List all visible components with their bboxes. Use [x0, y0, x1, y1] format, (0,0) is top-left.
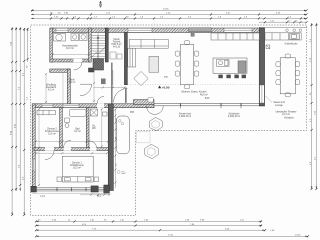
ticks: top detail chain: [31, 9, 308, 19]
door arc: entry door: [80, 84, 92, 96]
door arc: utility to vestibule: [74, 62, 82, 70]
wall: porch retaining band: [50, 69, 70, 72]
outdoor sink: [290, 34, 300, 40]
wall: wing interior 2 (bath/shower): [86, 108, 89, 148]
arrowheads: top chains right ends: [304, 10, 307, 20]
tree 2: [144, 144, 158, 158]
stair run arrow: [97, 37, 99, 59]
stair treads: [91, 35, 105, 58]
stair center rail: [97, 33, 99, 59]
window: north utility: [56, 28, 68, 32]
dining table: [180, 44, 193, 84]
outdoor chairs left: [276, 62, 281, 67]
interior chain: hall horizontal: [94, 87, 128, 89]
svg-text:16,2 m²: 16,2 m²: [73, 167, 81, 170]
dining chairs right: [194, 51, 199, 56]
svg-text:WC: WC: [92, 128, 96, 130]
dimension line: right 1: [311, 23, 313, 189]
svg-text:10,3 m²: 10,3 m²: [66, 47, 74, 50]
svg-text:Schlafzimmer: Schlafzimmer: [70, 164, 84, 167]
dimension line: terrace top chain: [259, 21, 307, 23]
bathtub: [69, 109, 86, 116]
dimension line: left 4: [23, 28, 25, 215]
interior chain: utility horizontal: [53, 54, 89, 56]
window: east wall: [260, 85, 265, 103]
wall: south glazing of living room: [154, 103, 260, 106]
svg-text:Kinderzimmer: Kinderzimmer: [45, 130, 59, 133]
planter rounded rect at entry path: [117, 116, 130, 154]
wall: wing interior 1 (room2/bath): [60, 108, 63, 148]
svg-text:14,35: 14,35: [295, 234, 301, 236]
shower room wc: [103, 112, 108, 116]
arrowheads: left chains bottoms: [11, 189, 25, 216]
wall: utility room south: [50, 59, 91, 62]
window: wing north 2: [63, 104, 79, 108]
wall: wing interior corridor: [34, 148, 110, 151]
ticks right chains: [311, 24, 318, 190]
door arcs: terrace double door: [147, 106, 164, 114]
small marks under wing: [80, 194, 110, 196]
room label: living: [182, 92, 209, 97]
utility sink circle: [54, 34, 66, 42]
north arrow: [99, 1, 102, 8]
island cooktop gray: [238, 61, 246, 73]
wall: south band west part (wing north wall): [32, 104, 154, 108]
dining chair top: [184, 41, 190, 45]
island sink: [217, 60, 230, 67]
door opening: utility: [74, 59, 83, 62]
left rotated dimension texts: [10, 41, 28, 180]
technic room fixtures: [110, 52, 116, 59]
solid pier at stair foot: [89, 68, 95, 72]
svg-text:Holzdeck: Holzdeck: [284, 118, 294, 120]
terrace step line below wing: [32, 192, 110, 194]
dimension line: top detail: [31, 17, 307, 19]
outdoor table: [280, 58, 295, 94]
dimension line: left 2: [15, 27, 17, 191]
porch step edge: [62, 72, 64, 104]
window: wing west: [32, 159, 35, 171]
dining chair bottom: [184, 85, 190, 89]
tree 1: [149, 117, 162, 130]
window ticks below south glazing: [181, 106, 242, 108]
svg-text:5,2 m²: 5,2 m²: [69, 81, 76, 84]
kitchen island: [213, 58, 247, 73]
svg-text:21,4 m²: 21,4 m²: [282, 113, 290, 116]
wall: north exterior band: [51, 28, 260, 33]
svg-text:6,2 m²: 6,2 m²: [74, 130, 81, 133]
outdoor counter: [265, 33, 301, 40]
wall: stair/living separation: [124, 33, 127, 85]
floor drain: [266, 45, 270, 49]
arrowheads: bottom chains ends: [36, 221, 39, 238]
svg-text:4,2 m²: 4,2 m²: [48, 89, 55, 92]
dimension line: bottom 4: [36, 235, 308, 237]
door arc: bath: [64, 140, 72, 148]
svg-text:überdachte Terrasse: überdachte Terrasse: [276, 111, 298, 114]
arrowheads left ends: [31, 10, 34, 20]
dimension line: left 1: [11, 27, 13, 215]
bath wc and sink: [65, 118, 70, 123]
svg-text:Wohnen, Essen, Kochen: Wohnen, Essen, Kochen: [182, 92, 208, 94]
stair break line: [91, 47, 105, 58]
wall: living south-west hatched pier: [134, 100, 155, 105]
svg-text:1,01: 1,01: [40, 196, 45, 198]
dimension line: right 2: [315, 23, 317, 189]
pergola beam line: [259, 26, 307, 28]
svg-text:Hauswirtschaft: Hauswirtschaft: [62, 44, 77, 47]
dining chairs left: [175, 51, 180, 56]
svg-text:Schiebetür: Schiebetür: [229, 113, 240, 116]
level marker +0,00: [158, 86, 161, 89]
dimension line: bottom 2: [36, 225, 262, 227]
svg-text:48,6 m²: 48,6 m²: [200, 94, 208, 97]
door opening: bath: [64, 148, 72, 151]
pergola columns: [286, 29, 289, 32]
door leaf: hall to living: [125, 88, 127, 103]
wall: hall east partition: [111, 63, 112, 104]
svg-text:HAR 5 m²: HAR 5 m²: [111, 43, 121, 46]
arrowheads: left chains tops: [11, 27, 28, 31]
wall: utility room east: [89, 28, 92, 62]
svg-text:überdacht: überdacht: [46, 86, 57, 89]
arrowheads: right chains: [311, 23, 317, 189]
sofa vertical part: [128, 48, 136, 67]
svg-text:Außenküche: Außenküche: [285, 43, 299, 46]
kitchen counter row: [211, 33, 259, 40]
dimension line: bottom 1: [36, 220, 262, 222]
porch mini chain: [45, 74, 47, 103]
ceiling beam dotted line: [128, 84, 260, 86]
wall: east exterior: [259, 28, 264, 106]
dimension texts top: [50, 8, 292, 18]
svg-text:14,35: 14,35: [163, 8, 169, 10]
interior chain: vestibule: [112, 70, 114, 85]
pier: wing south-east: [104, 185, 110, 193]
svg-text:2,40/2,30 m: 2,40/2,30 m: [228, 116, 240, 118]
bar stools: [218, 75, 222, 79]
wall: wing south glazed band: [32, 187, 109, 191]
door opening: bedroom: [45, 148, 54, 151]
window: wing north 1: [42, 104, 53, 108]
wall: vestibule west: [67, 69, 70, 104]
interior chain: wing horizontal: [36, 140, 109, 142]
coffee table rotated square: [134, 71, 148, 85]
svg-text:8,80: 8,80: [205, 98, 210, 100]
door arc: shower room: [90, 141, 97, 148]
svg-text:Zimmer 2: Zimmer 2: [47, 128, 57, 131]
svg-text:17,21: 17,21: [168, 235, 174, 237]
svg-text:PTI: PTI: [164, 77, 168, 79]
sofa horizontal part: [129, 40, 168, 49]
ticks bottom chains: [35, 220, 309, 237]
svg-text:Fenster fest: Fenster fest: [179, 113, 191, 116]
small marks near downspout: [121, 171, 124, 173]
svg-text:3,00/2,30 m: 3,00/2,30 m: [179, 116, 191, 118]
outdoor chair top: [285, 54, 291, 58]
wall: west exterior of utility room: [50, 28, 53, 62]
outdoor chairs right: [295, 62, 300, 67]
dimension chain along wing east wall: [114, 109, 116, 189]
leader line terrace: [266, 96, 273, 102]
right rotated dimension texts: [310, 38, 317, 165]
svg-text:h=2,10: h=2,10: [113, 47, 121, 49]
svg-text:Lounge: Lounge: [275, 105, 283, 107]
roof overhang dashed outline: [31, 25, 307, 215]
door arc: bedroom: [45, 151, 54, 160]
svg-text:+0,00: +0,00: [162, 85, 170, 89]
svg-text:Zimmer 1: Zimmer 1: [72, 162, 82, 165]
dimension line: left 3: [19, 27, 21, 191]
wardrobe room 2: [37, 110, 55, 115]
svg-text:12,6 m²: 12,6 m²: [48, 133, 56, 136]
wall: stair east: [105, 28, 108, 62]
interior chain: bedroom horizontal: [36, 152, 107, 154]
dimension line: left 5 short: [27, 28, 29, 62]
fixture: closet under stairs: [101, 79, 106, 85]
door opening: shower room: [90, 148, 97, 151]
dimension line: top overall: [31, 9, 307, 11]
outdoor chair bottom: [285, 93, 291, 97]
paving square: [137, 132, 151, 143]
pier: wing south-west: [31, 186, 37, 192]
ticks left chains: [11, 28, 29, 216]
dimension line: bottom 3: [36, 229, 265, 231]
small dark unit below sideboard: [191, 33, 194, 36]
interior chain: wing vertical: [38, 109, 40, 186]
pier: wing south-middle: [91, 186, 98, 192]
downspout circle: [117, 171, 120, 174]
washer and dryer: [71, 34, 79, 41]
interior chain: wing right vertical: [101, 109, 103, 148]
window: north living: [128, 28, 152, 32]
door arc: hall to living: [114, 88, 128, 102]
interior chain: vestibule east: [93, 63, 95, 102]
door opening: hall to wing: [97, 104, 104, 108]
chimney: cross hatched block: [93, 59, 104, 71]
double bed: [62, 156, 93, 182]
svg-text:P05: P05: [130, 112, 135, 114]
wall: wing west exterior: [32, 104, 35, 191]
sideboard: gray block on north wall: [189, 28, 212, 32]
nightstands: [57, 177, 61, 182]
wall: wing east exterior: [108, 104, 113, 191]
door arc: hall-wing: [97, 97, 104, 104]
shower square: [90, 109, 97, 116]
window: north kitchen: [224, 28, 252, 32]
bottom dimension texts: [52, 220, 301, 237]
floor mat near terrace door: [148, 98, 153, 102]
dimension line: top second: [31, 13, 307, 15]
chaise / side table: [149, 56, 159, 72]
